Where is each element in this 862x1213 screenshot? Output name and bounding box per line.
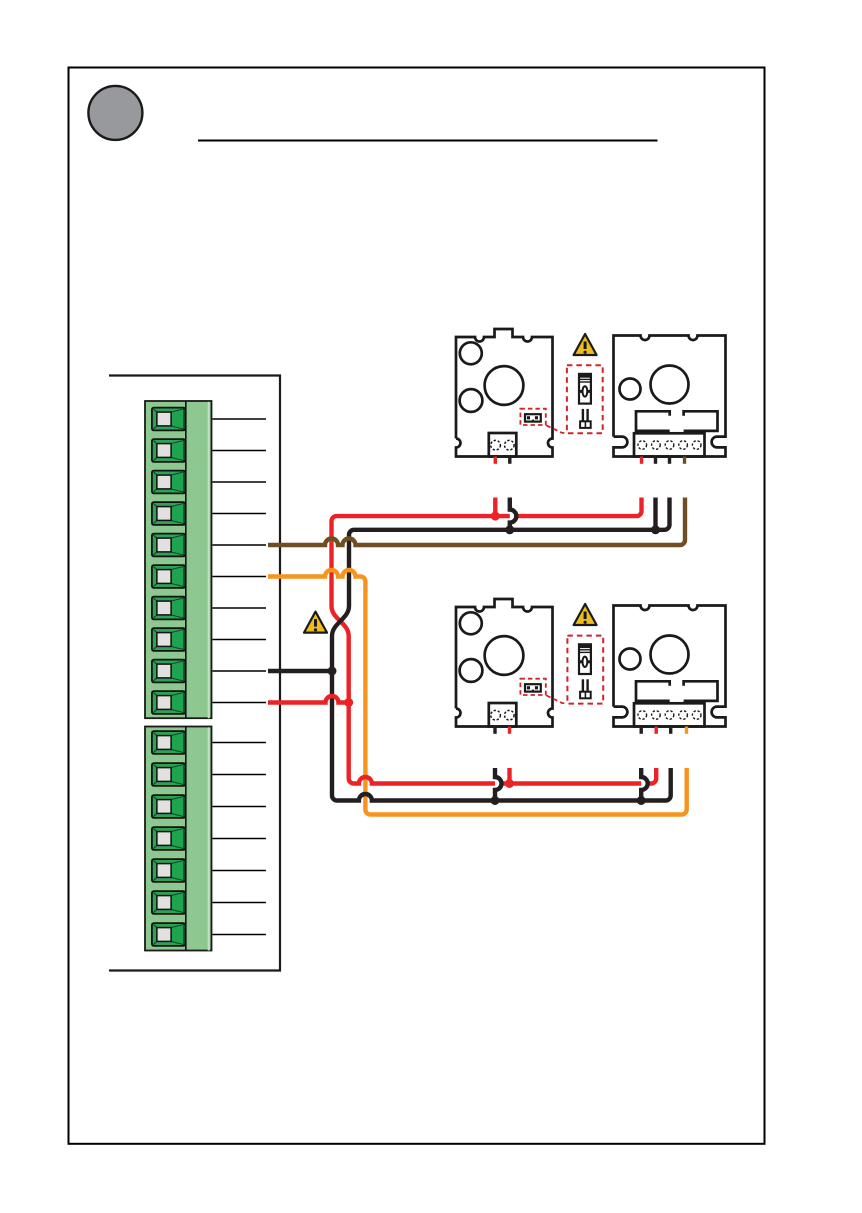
relay body bottom-right (614, 606, 726, 727)
detector 2-pin connector (bottom module) (489, 703, 517, 727)
black wire from panel AUX- (268, 669, 332, 673)
junction dot black at bottom-left module (491, 796, 500, 805)
red drop from bottom-left module (507, 768, 511, 784)
junction dot red at panel AUX+ (344, 698, 353, 707)
wire stubs top-right module: red,black,black,brown (640, 457, 643, 464)
black wire stub bottom-left module (493, 727, 496, 734)
warning triangle bottom callout (574, 604, 597, 625)
step-number circle (88, 86, 142, 140)
title underline (198, 140, 658, 142)
detector big circle (bottom module) (485, 636, 524, 675)
detector small circle lower (bottom module) (460, 659, 483, 682)
black tee wire from top-right module pin2 (653, 498, 657, 530)
warning triangle top (574, 334, 597, 355)
lower terminal cells (152, 731, 185, 946)
brown wire run (268, 498, 685, 546)
terminal strip upper body (145, 401, 212, 718)
black drop with hop from bottom-left module (495, 768, 502, 801)
relay body top-right (614, 336, 726, 457)
upper terminal cells (152, 408, 185, 714)
dashed leader to callout (top) (547, 426, 568, 434)
dashed callout box bottom (567, 636, 603, 704)
dashed callout box top (567, 365, 603, 433)
junction dot black at bottom-right module (637, 796, 646, 805)
black drop with hop from top-left module (510, 498, 517, 530)
white gaps under wire hops (510, 510, 517, 523)
red wire from panel AUX+ with hop (268, 696, 349, 703)
detector small circle lower (460, 389, 483, 412)
relay big circle (bottom) (651, 636, 689, 674)
wire stubs bottom-right module: black,red,black,orange (640, 727, 643, 734)
detector lens circle small top (460, 342, 482, 364)
red wire stub bottom-left module (508, 727, 511, 734)
detector small circle top (bottom module) (460, 612, 482, 634)
junction dot red at bottom-left module (505, 779, 514, 788)
jumper on bottom-left module (525, 684, 541, 691)
junction dot black at panel AUX- (328, 667, 337, 676)
control panel outline (109, 376, 280, 971)
relay terminal box (bottom) (634, 703, 705, 726)
junction dot black at top-left module (505, 525, 514, 534)
relay inner header box (bottom) (636, 681, 718, 701)
junction dot black at top-right module pin2 (651, 525, 660, 534)
detector 2-pin connector (489, 433, 517, 457)
relay terminal dashed circles top (638, 441, 701, 450)
red wire main run (332, 498, 657, 784)
jumper dashed box on top-left module (520, 409, 545, 425)
relay small circle (620, 379, 641, 400)
red drop from top-left module (493, 498, 497, 517)
relay terminal dashed circles bottom (638, 711, 701, 720)
orange wire run upper (268, 570, 365, 700)
red wire stub top-left module (494, 457, 497, 464)
black drop with hop from bottom-right module pin1 (641, 768, 648, 801)
jumper-off icon bottom (580, 679, 591, 698)
detector body top-left (456, 329, 553, 457)
black wire main run (332, 498, 671, 801)
dashed leader to callout (bottom) (547, 696, 568, 704)
terminal strip lower body (145, 727, 212, 951)
detector big circle (485, 366, 524, 405)
upper terminal leader lines (213, 419, 267, 703)
black wire stub top-left module (508, 457, 511, 464)
relay big circle (651, 366, 689, 404)
detector body bottom-left (456, 599, 553, 727)
relay terminal box (634, 433, 705, 456)
warning triangle near panel (304, 612, 327, 633)
jumper-on icon top (579, 374, 591, 404)
relay small circle (bottom) (620, 649, 641, 670)
jumper on top-left module (525, 414, 541, 421)
orange wire run lower (365, 700, 686, 815)
junction dot red at top-left module (491, 512, 500, 521)
jumper-on icon bottom (579, 644, 591, 674)
jumper-off icon top (580, 409, 591, 428)
jumper dashed box on bottom-left module (520, 679, 545, 695)
lower terminal leader lines (213, 743, 267, 935)
relay inner header box (636, 411, 718, 431)
